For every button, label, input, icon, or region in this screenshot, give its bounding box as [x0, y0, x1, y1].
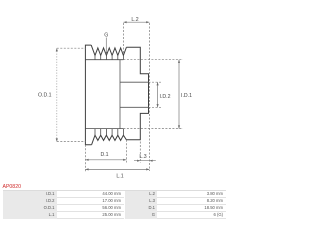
svg-text:L.3: L.3 — [139, 154, 146, 160]
svg-text:L.1: L.1 — [116, 174, 123, 180]
svg-text:I.D.1: I.D.1 — [181, 93, 192, 99]
svg-text:L.2: L.2 — [131, 17, 138, 23]
svg-text:I.D.2: I.D.2 — [160, 94, 171, 100]
svg-text:O.D.1: O.D.1 — [38, 93, 52, 99]
svg-text:D.1: D.1 — [100, 152, 108, 158]
svg-text:G: G — [104, 32, 108, 38]
